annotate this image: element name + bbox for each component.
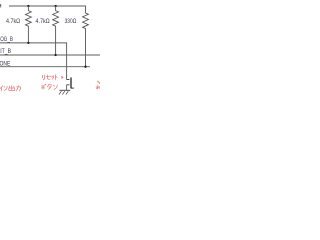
kana BO <box>42 84 47 89</box>
red annotation: in-shutsuryoku (katakana+kanji) <box>0 86 20 92</box>
svg-text:OG_B: OG_B <box>0 37 13 43</box>
kana TA <box>47 85 51 90</box>
node: junction dot rail/R1 <box>27 5 29 7</box>
kana RI <box>42 75 44 80</box>
svg-text:330Ω: 330Ω <box>65 19 77 25</box>
ground hatch 2 <box>62 91 64 94</box>
kana N <box>54 85 58 90</box>
svg-text:4.7kΩ: 4.7kΩ <box>36 19 51 25</box>
red arrowhead pointing to button <box>61 76 63 79</box>
ground hatch 3 <box>66 91 68 94</box>
resistor R2 4.7k <box>53 6 59 55</box>
kana I <box>0 86 2 91</box>
node: junction dot R1/line1 <box>27 42 29 44</box>
pushbutton SW actuator foot <box>71 87 74 89</box>
red annotation: risetto (katakana) <box>42 75 57 80</box>
kana small TSU <box>51 76 54 79</box>
pushbutton SW upper contact <box>67 79 70 81</box>
wire: top supply rail <box>9 5 86 7</box>
svg-text:4.7kΩ: 4.7kΩ <box>6 19 21 25</box>
node: junction dot R2/line2 <box>54 54 56 56</box>
cut-off icon at left edge <box>0 4 1 7</box>
kana SE <box>46 75 50 79</box>
kana TO <box>56 75 58 80</box>
wire: bus line 3 ONE <box>0 66 90 68</box>
kana N <box>4 86 7 90</box>
wire: bus line 1 OG_B with corner down to button <box>0 43 67 80</box>
pushbutton SW actuator bar <box>70 77 72 88</box>
red annotation: botan (katakana) <box>42 84 58 89</box>
resistor R3 330 <box>83 6 89 66</box>
ground symbol bar <box>59 89 70 91</box>
resistor R1 4.7k <box>26 6 32 43</box>
wire: bus line 2 IT_B <box>0 54 100 56</box>
kanji RYOKU <box>16 86 20 91</box>
svg-text:IT_B: IT_B <box>0 49 11 55</box>
kanji SHUTSU <box>9 86 15 91</box>
ground hatch 1 <box>59 91 61 94</box>
red fragment at right edge <box>96 81 100 89</box>
pushbutton SW lower contact <box>67 84 70 86</box>
node: junction dot rail/R2 <box>54 5 56 7</box>
wire: button to ground <box>66 85 68 91</box>
node: junction dot R3/line3 <box>84 66 86 68</box>
